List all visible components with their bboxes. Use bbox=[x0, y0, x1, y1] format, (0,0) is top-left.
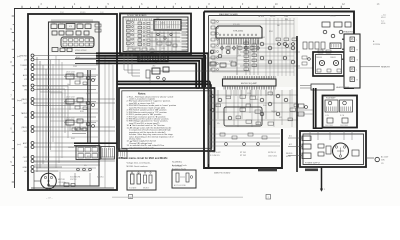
phones driver parts bbox=[298, 104, 304, 108]
main input board inner outline bbox=[49, 22, 100, 186]
page border left ruler line bbox=[14, 9, 16, 189]
svg-text:SELECT: SELECT bbox=[143, 188, 149, 190]
svg-text:NOTE 2-1: NOTE 2-1 bbox=[268, 152, 276, 154]
svg-text:Voltage drive, Line Boards,: Voltage drive, Line Boards, bbox=[127, 162, 151, 165]
IC101 bbox=[51, 24, 57, 29]
board A bottom wires bbox=[34, 161, 100, 163]
sub board right pin column bbox=[182, 19, 187, 21]
svg-text:(tape): (tape) bbox=[17, 99, 22, 102]
svg-text:Q101 Q102: Q101 Q102 bbox=[66, 97, 75, 99]
sub board inner outline bbox=[123, 17, 188, 52]
internal board divider vertical bbox=[296, 36, 298, 172]
svg-text:TAPE: TAPE bbox=[22, 84, 28, 87]
svg-text:D101: D101 bbox=[71, 138, 75, 140]
svg-text:STK-435: STK-435 bbox=[233, 24, 240, 26]
corner wire run 1 bbox=[37, 86, 68, 138]
IC106 row2 bbox=[52, 31, 57, 35]
power connector CN903 bbox=[302, 153, 311, 159]
svg-text:MODEL Serial numbers: MODEL Serial numbers bbox=[127, 166, 148, 168]
bus bundle vertical descent bbox=[208, 87, 210, 168]
svg-text:AN7062 EQ AMP: AN7062 EQ AMP bbox=[241, 82, 258, 85]
svg-text:47u: 47u bbox=[84, 165, 87, 167]
svg-text:(REC): (REC) bbox=[21, 127, 27, 129]
svg-text:R66: R66 bbox=[285, 19, 288, 21]
power amp hybrid IC STK201 bbox=[216, 26, 262, 38]
svg-text:560: 560 bbox=[277, 25, 280, 27]
head terminal circles bbox=[77, 168, 80, 171]
IC strip pin hatch above bbox=[224, 76, 275, 79]
svg-text:Q101 Q102: Q101 Q102 bbox=[66, 118, 75, 120]
svg-text:C310 C311: C310 C311 bbox=[268, 156, 277, 158]
lower cluster transistors main amp bbox=[210, 94, 214, 98]
svg-text:100k: 100k bbox=[255, 99, 259, 101]
record switch bank S201 bbox=[76, 146, 100, 160]
STK pin circles bbox=[219, 34, 257, 36]
IC102 bbox=[59, 24, 65, 29]
page bottom scan line bbox=[112, 196, 243, 198]
svg-text:C105: C105 bbox=[261, 37, 265, 39]
hookup diagram box 2 bbox=[172, 170, 196, 188]
sub board top tick row bbox=[126, 19, 151, 21]
svg-text:R24 C14: R24 C14 bbox=[127, 46, 133, 48]
centre cluster transistors bbox=[260, 42, 264, 46]
power connector CN902 bbox=[302, 144, 311, 149]
output stage heavy stubs bbox=[342, 38, 350, 40]
svg-text:R201: R201 bbox=[76, 57, 80, 59]
emitter resistor bank bbox=[303, 42, 307, 49]
svg-text:IC4: IC4 bbox=[79, 22, 82, 24]
record select switch S102 bbox=[72, 128, 76, 131]
svg-text:AC 120V: AC 120V bbox=[381, 156, 389, 159]
svg-text:R21 C11: R21 C11 bbox=[127, 27, 133, 29]
switch S101 contacts row1 bbox=[63, 39, 67, 42]
input bus vertical wires bbox=[36, 57, 38, 172]
left ruler ticks bbox=[12, 16, 15, 182]
connector pin drop wires bbox=[139, 53, 141, 61]
svg-text:C602 R602: C602 R602 bbox=[340, 125, 348, 127]
svg-text:R: 1/4W 5%: R: 1/4W 5% bbox=[210, 155, 220, 157]
sub board centre transistors bbox=[157, 33, 159, 35]
svg-text:L: L bbox=[357, 40, 358, 42]
lower cluster wires horizontal bbox=[208, 94, 298, 96]
svg-text:2SC945: 2SC945 bbox=[68, 147, 74, 149]
power board verticals bbox=[309, 131, 311, 140]
svg-text:R118: R118 bbox=[80, 111, 84, 113]
svg-text:3W: 3W bbox=[381, 163, 384, 165]
svg-text:C: 50V 0.022: C: 50V 0.022 bbox=[210, 152, 221, 154]
mid board horizontal wires bbox=[50, 92, 98, 94]
headphone amp lower parts R bbox=[342, 118, 348, 123]
svg-text:60Hz: 60Hz bbox=[381, 160, 385, 162]
bus wire 1 input board to amp bbox=[96, 53, 208, 87]
svg-text:(out): (out) bbox=[17, 143, 21, 146]
svg-text:TAPE2: TAPE2 bbox=[21, 112, 28, 115]
svg-text:2SB618: 2SB618 bbox=[330, 57, 336, 59]
power supply board inner outline bbox=[303, 134, 364, 165]
power transistor Q201 bbox=[319, 60, 324, 65]
svg-text:S202 EQ: S202 EQ bbox=[97, 177, 104, 179]
STK pin hatch bbox=[218, 38, 259, 45]
board A bottom inner edge bbox=[31, 187, 114, 189]
speaker terminals bbox=[350, 37, 355, 42]
sub board connector CNP101 bbox=[138, 56, 168, 62]
main amp board inner edge top bbox=[209, 15, 351, 17]
STK pin drop wires bbox=[221, 45, 223, 55]
power supply board outline bbox=[300, 131, 366, 167]
IC111 bbox=[52, 48, 58, 52]
svg-text:100k: 100k bbox=[74, 129, 78, 131]
main amp board inner edge left bbox=[208, 16, 210, 165]
bus wire 5 input board to amp bbox=[96, 63, 196, 88]
svg-text:C180: C180 bbox=[167, 45, 171, 47]
svg-text:R310: R310 bbox=[161, 33, 165, 35]
motor wires bbox=[34, 180, 41, 182]
board A right exit wires bbox=[104, 55, 106, 188]
edge parts inner box A bbox=[95, 24, 101, 27]
sub board centre resistors bbox=[157, 42, 162, 45]
power transformer T901 bbox=[333, 143, 349, 159]
svg-text:No.(MLML): No.(MLML) bbox=[172, 162, 182, 164]
svg-text:DOLBY NR BOARD: DOLBY NR BOARD bbox=[127, 14, 147, 17]
svg-text:+B 35V: +B 35V bbox=[258, 16, 265, 18]
page marker 2 bbox=[266, 195, 271, 200]
svg-text:MAIN AMP BOARD: MAIN AMP BOARD bbox=[219, 13, 238, 16]
corner wire run 3 bbox=[40, 92, 62, 128]
IC113 bbox=[67, 48, 72, 52]
svg-text:C105: C105 bbox=[73, 66, 77, 68]
IC103 bbox=[66, 24, 75, 30]
svg-text:Q204: Q204 bbox=[161, 48, 165, 50]
shield bus wire board A bbox=[33, 105, 88, 107]
filter group box bbox=[224, 107, 262, 126]
scan haze amp board lower bbox=[208, 90, 296, 128]
svg-text:SW BD: SW BD bbox=[80, 12, 86, 14]
input jack column bbox=[31, 54, 34, 57]
headphone amp cell L bbox=[325, 100, 338, 112]
svg-text:Q203: Q203 bbox=[161, 42, 165, 44]
IC112 bbox=[60, 48, 65, 52]
svg-text:1k: 1k bbox=[155, 21, 157, 23]
relay RY201 box bbox=[330, 43, 341, 49]
STK peripheral parts bbox=[221, 47, 224, 50]
scan haze sub board bbox=[123, 17, 188, 54]
line amp cluster Q103 bbox=[66, 99, 74, 104]
muting amp cluster Q101 bbox=[66, 74, 74, 79]
svg-text:MLML: MLML bbox=[381, 23, 386, 25]
svg-text:MOTOR: MOTOR bbox=[58, 179, 65, 181]
svg-text:10u: 10u bbox=[245, 49, 248, 51]
svg-text:B+ 24V: B+ 24V bbox=[207, 69, 213, 71]
svg-text:ADP: ADP bbox=[23, 142, 28, 145]
lower cluster wires vertical bbox=[209, 90, 211, 125]
svg-text:GND: GND bbox=[23, 167, 28, 169]
IC105 bbox=[85, 24, 91, 29]
svg-text:2SC945: 2SC945 bbox=[271, 111, 277, 113]
notes box inner outline bbox=[122, 91, 212, 149]
power transistor Q202 bbox=[333, 60, 338, 65]
svg-text:D101: D101 bbox=[263, 105, 267, 107]
output transistors right bbox=[323, 30, 327, 34]
svg-text:R20 C10: R20 C10 bbox=[127, 21, 133, 23]
hookup diagram box 1 bbox=[127, 171, 156, 190]
bus wire 4 input board to amp bbox=[96, 61, 199, 88]
svg-text:TUNER: TUNER bbox=[20, 65, 27, 67]
svg-text:Q201: Q201 bbox=[161, 29, 165, 31]
remote wire bbox=[360, 66, 380, 68]
bottom components board A bbox=[64, 183, 69, 187]
svg-text:For (CKAA2): For (CKAA2) bbox=[172, 165, 183, 168]
input board top connector hatch bbox=[52, 19, 92, 23]
svg-text:(rec): (rec) bbox=[17, 55, 21, 58]
sub board left component column 1 bbox=[127, 21, 131, 24]
svg-text:4-These mains circuit for MLK: 4-These mains circuit for MLK and MLML: bbox=[119, 157, 169, 160]
amp board wiring verticals bbox=[265, 18, 267, 76]
jack wires to bus bbox=[34, 55, 98, 57]
svg-text:adjustment be used in units.: adjustment be used in units. bbox=[129, 146, 155, 149]
svg-text:RT 201: RT 201 bbox=[240, 152, 246, 154]
svg-text:C210: C210 bbox=[77, 120, 81, 122]
svg-text:POWER SUPPLY: POWER SUPPLY bbox=[305, 163, 321, 165]
svg-text:R118: R118 bbox=[221, 67, 225, 69]
AC cord wire bbox=[366, 157, 374, 159]
svg-text:4.7k: 4.7k bbox=[253, 43, 256, 45]
page marker 12 bbox=[129, 195, 133, 199]
AC plug bbox=[375, 157, 379, 161]
page link arrow bbox=[320, 189, 323, 192]
svg-text:IC5: IC5 bbox=[87, 22, 90, 24]
svg-text:0.022: 0.022 bbox=[229, 61, 233, 63]
power transistor block parts bbox=[317, 69, 321, 72]
power parts bbox=[318, 144, 324, 148]
svg-text:Q202: Q202 bbox=[161, 35, 165, 37]
meter cluster centre bbox=[152, 68, 160, 74]
sub board bottom row components bbox=[128, 48, 133, 51]
bus wire 3 input board to amp bbox=[96, 58, 202, 87]
svg-text:AUX: AUX bbox=[23, 74, 28, 77]
svg-text:-B 35V: -B 35V bbox=[270, 16, 276, 18]
svg-text:2-18: 2-18 bbox=[100, 12, 103, 14]
IC104 bbox=[77, 24, 83, 29]
component value labels scatter bbox=[67, 19, 288, 167]
scan haze amp board upper bbox=[208, 17, 298, 87]
svg-text:STK-0050: STK-0050 bbox=[233, 31, 244, 33]
lower cluster resistors bbox=[240, 95, 246, 98]
signal wire crossing to amp bbox=[150, 70, 250, 72]
lower left area wires bbox=[208, 133, 280, 135]
svg-text:SWITCH: SWITCH bbox=[70, 179, 77, 181]
svg-text:2: 2 bbox=[268, 197, 269, 199]
sub board centre wires bbox=[151, 32, 153, 53]
IC108 row2 bbox=[66, 31, 73, 35]
headphone amp cell R bbox=[340, 100, 353, 112]
main input board outline bbox=[28, 14, 117, 190]
svg-text:2SD588: 2SD588 bbox=[316, 57, 322, 59]
record switch bank S201 heavy feed bars bbox=[74, 142, 117, 144]
bias resistors right bbox=[318, 50, 323, 53]
top ruler ticks bbox=[22, 6, 341, 9]
svg-text:Available in Pacific: Available in Pacific bbox=[172, 167, 186, 170]
power connector CN901 bbox=[302, 136, 311, 141]
svg-text:R22 C12: R22 C12 bbox=[127, 33, 133, 35]
svg-text:Q101 Q102: Q101 Q102 bbox=[66, 72, 75, 74]
svg-text:FLAT AMP: FLAT AMP bbox=[326, 97, 336, 100]
hookup diagram 1 terminals bbox=[131, 172, 132, 173]
mid board vertical wires bbox=[55, 56, 57, 168]
input bus vertical wires inner bbox=[50, 60, 52, 150]
IC110 row2 bbox=[84, 31, 89, 35]
centre cluster wires bbox=[245, 40, 247, 75]
sub board outline bbox=[120, 14, 191, 55]
svg-text:2.2k: 2.2k bbox=[155, 39, 158, 41]
svg-text:C77: C77 bbox=[167, 27, 170, 29]
svg-text:Q204: Q204 bbox=[237, 55, 241, 57]
svg-text:47u: 47u bbox=[217, 123, 220, 125]
IC109 row2 bbox=[76, 31, 81, 35]
svg-text:0.022: 0.022 bbox=[83, 102, 87, 104]
heavy bus pair from input board bbox=[117, 81, 210, 83]
svg-text:R95: R95 bbox=[87, 156, 90, 158]
power connector wires bbox=[288, 137, 302, 139]
page link wire down bbox=[321, 167, 323, 191]
driver cluster left bbox=[210, 50, 214, 54]
thin wires under sub board bbox=[124, 54, 140, 70]
svg-text:10u: 10u bbox=[67, 84, 70, 86]
svg-text:IC2: IC2 bbox=[60, 22, 63, 24]
svg-text:SYSTEM: SYSTEM bbox=[373, 44, 381, 46]
hookup diagram 1 transformer bars bbox=[131, 174, 135, 184]
main board name bar bbox=[258, 168, 277, 171]
power transistor block inner bbox=[316, 55, 342, 74]
corner wire run 2 bbox=[37, 89, 65, 133]
relay area top right bbox=[322, 22, 330, 27]
svg-text:Q204: Q204 bbox=[86, 93, 90, 95]
phono amp IC strip bbox=[223, 79, 277, 86]
headphone wires bbox=[300, 85, 311, 87]
IC107 row2 bbox=[59, 31, 64, 35]
oscillator shield box bbox=[154, 20, 181, 31]
svg-text:Q200: Q200 bbox=[161, 23, 165, 25]
eq strip drop wires bbox=[225, 90, 227, 97]
svg-text:R201: R201 bbox=[269, 31, 273, 33]
buffer cluster Q105 bbox=[66, 120, 74, 125]
svg-text:REMOTE: REMOTE bbox=[381, 67, 391, 69]
svg-text:Notes:: Notes: bbox=[138, 92, 146, 96]
speaker terminal strip bbox=[344, 34, 360, 88]
switch S101 contacts row2 bbox=[63, 43, 67, 46]
centre cluster resistors bbox=[244, 42, 249, 45]
svg-text:4.7k: 4.7k bbox=[70, 75, 73, 77]
left column parts main amp bbox=[211, 20, 215, 23]
svg-text:RY201: RY201 bbox=[330, 16, 335, 18]
power transistor block outline bbox=[313, 52, 344, 76]
svg-text:(REC): (REC) bbox=[21, 99, 27, 101]
shielded signal pair board A bbox=[87, 70, 89, 144]
head bus wires into board A bbox=[75, 52, 96, 54]
hookup diagram 2 parts bbox=[176, 173, 179, 182]
lower left area parts bbox=[220, 133, 225, 136]
svg-text:C601 R601: C601 R601 bbox=[325, 125, 333, 127]
svg-text:HEADPHONES: HEADPHONES bbox=[336, 86, 350, 89]
sub board fine wiring grid bbox=[126, 20, 186, 22]
svg-text:P101: P101 bbox=[60, 12, 64, 14]
record switch bank S202 bbox=[101, 147, 115, 160]
svg-text:-- 127 --: -- 127 -- bbox=[46, 198, 53, 200]
capstan motor M1 bbox=[41, 173, 57, 189]
IC strip pin hatch below bbox=[224, 86, 275, 90]
svg-text:RT 202: RT 202 bbox=[240, 155, 246, 157]
scan haze input board top bbox=[50, 20, 98, 53]
svg-text:IC1: IC1 bbox=[53, 22, 56, 24]
bus wire 2 input board to amp bbox=[96, 56, 205, 87]
headphone amp board outline bbox=[323, 96, 358, 128]
lower cluster extra parts bbox=[216, 104, 221, 107]
svg-text:C210: C210 bbox=[247, 93, 251, 95]
centre cluster resistors col2 bbox=[252, 44, 257, 47]
headphone amp lower parts L bbox=[327, 118, 333, 123]
sub board left component column 2 bbox=[138, 22, 142, 25]
function switch block S101 bbox=[61, 37, 94, 48]
headphone jack bbox=[311, 84, 334, 90]
svg-text:L: L bbox=[357, 70, 358, 72]
svg-text:SPEAKERS: SPEAKERS bbox=[342, 31, 353, 34]
svg-text:VR101 VR102: VR101 VR102 bbox=[75, 50, 87, 52]
svg-text:MAIN P.W. BOARD: MAIN P.W. BOARD bbox=[214, 172, 231, 175]
amp board wiring horizontals bbox=[212, 20, 294, 22]
svg-text:IC3: IC3 bbox=[69, 26, 72, 28]
notes box outline bbox=[119, 88, 215, 151]
bus bundle corner joins bbox=[196, 88, 205, 89]
component box at notes corner bbox=[117, 149, 127, 158]
page border top ruler line bbox=[14, 8, 350, 10]
svg-text:MLK4: MLK4 bbox=[381, 17, 385, 19]
heavy feed pair right bbox=[313, 88, 315, 129]
main amp board outline bbox=[204, 12, 354, 169]
power board name bar bbox=[305, 169, 318, 172]
svg-text:R95: R95 bbox=[279, 117, 282, 119]
svg-text:R23 C13: R23 C13 bbox=[127, 40, 133, 42]
parts left of transistor block bbox=[302, 56, 307, 59]
feedback parts cluster bbox=[276, 38, 281, 41]
svg-text:2: 2 bbox=[324, 189, 325, 191]
